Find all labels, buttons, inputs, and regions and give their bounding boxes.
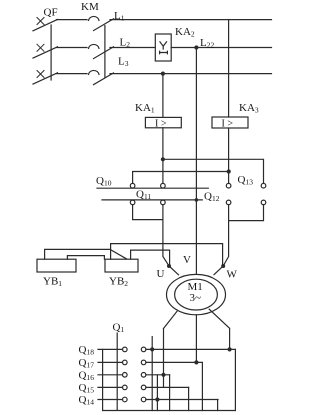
node Q18 tap on bar — [150, 347, 154, 351]
wire middle leg jog down — [196, 362, 202, 410]
wire W into motor — [214, 266, 223, 275]
svg-text:QF: QF — [44, 7, 58, 19]
wire U into motor — [169, 266, 179, 275]
breaker QF pole 1 — [37, 18, 44, 25]
node middle leg tap Q17 — [194, 360, 198, 364]
node V tap on Q11 rail — [195, 198, 199, 202]
svg-text:W: W — [227, 269, 238, 281]
motor M1 outer — [167, 274, 226, 314]
wire W feed (YB2 top to W) — [111, 244, 223, 264]
svg-text:I >: I > — [222, 119, 234, 130]
motor M1 inner — [175, 279, 218, 310]
brake YB2 box — [105, 259, 138, 272]
wire motor left leg — [164, 311, 178, 375]
breaker QF pole 3 — [37, 71, 44, 78]
wire L3 drop to KA1 — [162, 74, 164, 118]
node W terminal — [221, 264, 225, 268]
wire KA3 out — [228, 128, 230, 183]
wire bottom bus — [103, 410, 236, 412]
wire KA3 output to Q10 left — [133, 172, 229, 184]
wire L1 rail — [110, 19, 272, 21]
contact Q11 circles — [130, 200, 135, 205]
node left leg tap Q16 — [161, 373, 165, 377]
wire KA1 out — [162, 128, 164, 184]
contact Q10 circles — [130, 183, 135, 188]
node KA1 tap on L3 — [161, 72, 165, 76]
wire Q12 bottom bus — [229, 205, 264, 221]
contact Q18 row — [98, 348, 123, 350]
wire Q18 right drop — [234, 349, 236, 410]
wire Q18 left drop — [102, 349, 104, 410]
wire Vb drop — [156, 375, 158, 411]
wire motor middle leg — [195, 315, 197, 363]
wire Q12 to W — [223, 221, 228, 266]
wire Q11 bottoms join — [133, 205, 163, 220]
wire V phase drop (L22 to motor V) — [195, 48, 197, 275]
KM linkage bar — [104, 26, 106, 78]
relay KA1 box — [145, 117, 181, 127]
switch Q1 second bar — [151, 337, 153, 411]
svg-text:KM: KM — [81, 1, 99, 13]
contact Q16 row — [98, 374, 123, 376]
wire motor right leg — [209, 309, 229, 349]
node L22 junction on L2 — [194, 45, 198, 49]
contact Q10 rail — [97, 187, 208, 189]
wire Q15 right drop — [188, 387, 190, 410]
node KA1 output junction — [161, 157, 165, 161]
wire Q16 right drop — [169, 375, 171, 411]
wire L2 rail — [110, 47, 272, 49]
contact Q14 row — [98, 399, 123, 401]
node right leg tap Q18 — [228, 347, 232, 351]
breaker QF pole 2 — [37, 44, 44, 51]
contact Q12 circles — [226, 200, 231, 205]
relay KA3 box — [212, 117, 248, 128]
switch Q1 bar — [116, 333, 118, 410]
wire Q14 right drop — [217, 400, 219, 411]
contact Q11 rail — [102, 199, 202, 201]
node Q14 tap — [155, 397, 159, 401]
brake YB1 box — [37, 259, 76, 272]
wire L1 drop through KA3 — [228, 20, 230, 117]
wire KA1 output to Q13 right — [163, 159, 264, 183]
wire YB1 terminal 1 — [45, 249, 127, 259]
contactor KM pole 3 — [89, 70, 100, 74]
svg-text:3~: 3~ — [190, 292, 202, 304]
contact Q15 row — [98, 386, 123, 388]
contact Q17 row — [98, 361, 123, 363]
wire Q11 to U — [163, 205, 169, 266]
node U terminal — [167, 264, 171, 268]
node KA3 output junction — [227, 169, 231, 173]
contactor KM pole 1 — [89, 16, 100, 20]
wire left leg stub to Q15 — [163, 375, 165, 388]
QF linkage bar — [50, 25, 52, 80]
contactor KM pole 2 — [89, 44, 100, 48]
wire YB1 terminal 2 — [67, 256, 104, 260]
wire L3 rail — [110, 73, 272, 75]
contact Q13 circles — [226, 183, 231, 188]
wire YB bridge to U — [131, 250, 170, 264]
svg-text:V: V — [183, 254, 191, 266]
svg-text:I >: I > — [155, 119, 167, 130]
relay KA2 box — [155, 34, 171, 61]
svg-text:U: U — [157, 268, 165, 280]
